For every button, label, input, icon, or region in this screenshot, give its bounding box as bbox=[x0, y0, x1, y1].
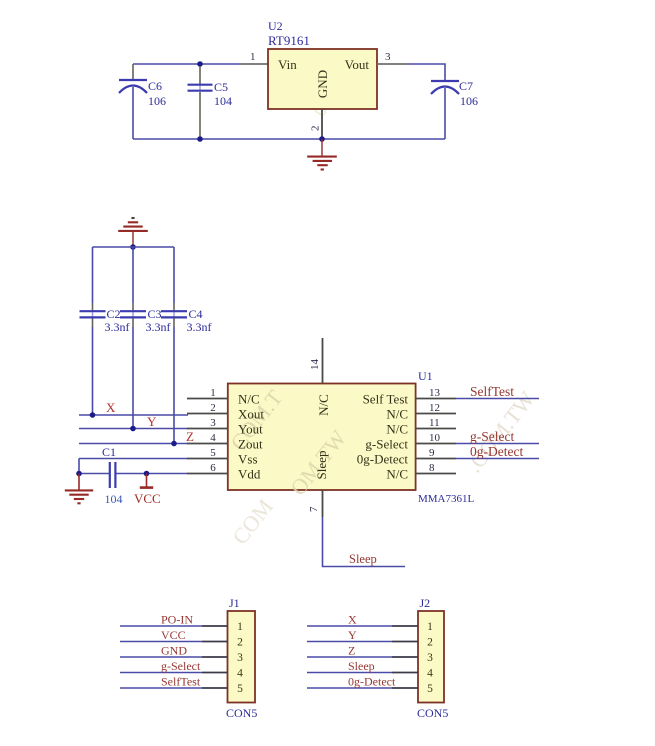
node junction gnd bus bbox=[130, 244, 136, 250]
svg-text:2: 2 bbox=[310, 126, 322, 132]
wire bottom rail bbox=[133, 138, 445, 140]
node junction gnd C1 bbox=[76, 471, 82, 477]
wire 0g-Detect (J2) bbox=[307, 687, 392, 689]
svg-text:Sleep: Sleep bbox=[349, 552, 377, 566]
svg-text:0g-Detect: 0g-Detect bbox=[348, 675, 396, 689]
svg-text:X: X bbox=[106, 400, 116, 415]
svg-text:106: 106 bbox=[148, 94, 166, 108]
svg-text:Vout: Vout bbox=[345, 57, 370, 72]
svg-text:3: 3 bbox=[427, 652, 433, 664]
wire node Z bbox=[79, 443, 188, 445]
ground symbol C1 bbox=[65, 474, 93, 504]
pin 6 stub bbox=[187, 473, 228, 475]
node junction VCC bbox=[144, 471, 150, 477]
wire node X bbox=[79, 414, 188, 416]
capacitor C6 bbox=[119, 80, 147, 93]
wire node Y bbox=[79, 428, 188, 430]
svg-text:C6: C6 bbox=[148, 79, 162, 93]
svg-text:CON5: CON5 bbox=[417, 706, 448, 720]
svg-text:C1: C1 bbox=[102, 445, 116, 459]
svg-text:1: 1 bbox=[210, 387, 216, 399]
svg-text:J2: J2 bbox=[420, 596, 431, 610]
svg-text:8: 8 bbox=[429, 462, 435, 474]
watermark over U1 mid bbox=[285, 425, 351, 500]
pin 3 of U2 bbox=[377, 63, 407, 65]
svg-text:g-Select: g-Select bbox=[365, 437, 408, 452]
svg-text:Z: Z bbox=[186, 429, 194, 444]
svg-text:J1: J1 bbox=[229, 596, 240, 610]
svg-text:g-Select: g-Select bbox=[470, 429, 514, 444]
wire X (J2) bbox=[307, 625, 392, 627]
watermark over U1 left bbox=[225, 385, 288, 455]
svg-text:3.3nf: 3.3nf bbox=[105, 320, 130, 334]
svg-text:9: 9 bbox=[429, 447, 435, 459]
svg-text:7: 7 bbox=[308, 506, 320, 512]
svg-text:11: 11 bbox=[429, 417, 440, 429]
power symbol VCC bbox=[140, 474, 153, 488]
svg-text:Vin: Vin bbox=[278, 57, 297, 72]
wire Sleep bbox=[323, 517, 406, 567]
watermark below U1 left bbox=[227, 494, 278, 549]
svg-text:Zout: Zout bbox=[238, 437, 263, 452]
svg-text:6: 6 bbox=[210, 462, 216, 474]
pin 13 stub bbox=[416, 398, 456, 400]
capacitor C7 bbox=[431, 81, 459, 94]
connector J1 box bbox=[228, 611, 256, 703]
svg-text:U2: U2 bbox=[268, 19, 283, 33]
svg-text:5: 5 bbox=[427, 683, 433, 695]
svg-text:GND: GND bbox=[161, 644, 187, 658]
svg-text:104: 104 bbox=[105, 492, 123, 506]
svg-text:3: 3 bbox=[210, 417, 216, 429]
J1 pin numbers bbox=[237, 621, 243, 695]
svg-text:3.3nf: 3.3nf bbox=[146, 320, 171, 334]
op-amp U2 box bbox=[268, 49, 377, 109]
pin 12 stub bbox=[416, 413, 456, 415]
node junction bottom (C5) bbox=[197, 136, 203, 142]
capacitor C1 bbox=[110, 462, 116, 488]
wire C3 vertical bbox=[132, 247, 134, 303]
U1 left pin names bbox=[238, 392, 264, 482]
svg-text:C3: C3 bbox=[148, 307, 162, 321]
wire 0g-Detect bbox=[456, 458, 539, 460]
svg-text:N/C: N/C bbox=[386, 467, 408, 482]
wire C2 vertical bbox=[92, 247, 94, 303]
svg-text:N/C: N/C bbox=[386, 407, 408, 422]
pin 14 stub bbox=[322, 338, 324, 384]
pin 9 stub bbox=[416, 458, 456, 460]
svg-text:4: 4 bbox=[237, 668, 243, 680]
svg-text:2: 2 bbox=[237, 637, 243, 649]
svg-text:g-Select: g-Select bbox=[161, 659, 201, 673]
svg-text:C4: C4 bbox=[189, 307, 203, 321]
svg-text:Vdd: Vdd bbox=[238, 467, 261, 482]
svg-text:VCC: VCC bbox=[161, 628, 186, 642]
svg-text:RT9161: RT9161 bbox=[268, 33, 310, 48]
pin 2 of U2 bbox=[321, 109, 323, 139]
pin 11 stub bbox=[416, 428, 456, 430]
svg-text:4: 4 bbox=[427, 668, 433, 680]
wire SelfTest (J1) bbox=[120, 687, 202, 689]
wire output top bbox=[407, 64, 445, 80]
svg-text:SelfTest: SelfTest bbox=[161, 675, 201, 689]
svg-text:3: 3 bbox=[237, 652, 243, 664]
svg-text:14: 14 bbox=[309, 359, 321, 371]
capacitor C3 bbox=[132, 312, 134, 317]
wire Z (J2) bbox=[307, 656, 392, 658]
svg-text:PO-IN: PO-IN bbox=[161, 613, 193, 627]
capacitor C5 bbox=[199, 85, 201, 90]
svg-text:Sleep: Sleep bbox=[314, 451, 329, 480]
wire GND (J1) bbox=[120, 656, 202, 658]
svg-text:COM: COM bbox=[227, 494, 278, 549]
svg-text:2: 2 bbox=[427, 637, 433, 649]
wire C4 vertical bbox=[173, 247, 175, 303]
svg-text:104: 104 bbox=[214, 94, 232, 108]
watermark right of U1 bbox=[461, 386, 540, 477]
ground symbol top (inverted) bbox=[118, 218, 148, 247]
wire input top bbox=[133, 63, 240, 65]
node junction top (C5) bbox=[197, 61, 203, 67]
wire Vss bbox=[79, 458, 188, 460]
svg-text:C7: C7 bbox=[459, 79, 473, 93]
svg-text:U1: U1 bbox=[418, 369, 433, 383]
wire PO-IN bbox=[120, 625, 202, 627]
pin 1 of U2 bbox=[240, 63, 268, 65]
ground symbol under U2 bbox=[307, 139, 337, 170]
svg-text:13: 13 bbox=[429, 387, 441, 399]
wire Y (J2) bbox=[307, 641, 392, 643]
wire Sleep (J2) bbox=[307, 672, 392, 674]
svg-text:3.3nf: 3.3nf bbox=[187, 320, 212, 334]
U1 right pin names bbox=[357, 392, 409, 482]
svg-text:5: 5 bbox=[237, 683, 243, 695]
svg-text:Self Test: Self Test bbox=[363, 392, 409, 407]
svg-text:5: 5 bbox=[210, 447, 216, 459]
svg-text:Yout: Yout bbox=[238, 422, 263, 437]
capacitor C4 bbox=[173, 312, 175, 317]
svg-text:N/C: N/C bbox=[316, 394, 331, 416]
svg-text:Z: Z bbox=[348, 644, 355, 658]
J2 pin numbers bbox=[427, 621, 433, 695]
pin 3 stub bbox=[187, 428, 228, 430]
svg-text:C2: C2 bbox=[107, 307, 121, 321]
svg-text:Vss: Vss bbox=[238, 452, 258, 467]
wire SelfTest bbox=[456, 398, 539, 400]
watermark over U2 bbox=[309, 64, 360, 121]
wire Vdd bbox=[79, 473, 109, 475]
pin 4 stub bbox=[187, 443, 228, 445]
svg-text:CON5: CON5 bbox=[226, 706, 257, 720]
svg-text:MMA7361L: MMA7361L bbox=[418, 493, 475, 505]
wire left vertical (C6 branch) bbox=[132, 64, 134, 80]
svg-text:2: 2 bbox=[210, 402, 216, 414]
svg-text:1: 1 bbox=[237, 621, 243, 633]
connector J2 box bbox=[418, 611, 444, 703]
svg-text:4: 4 bbox=[210, 432, 216, 444]
pin 10 stub bbox=[416, 443, 456, 445]
svg-text:C5: C5 bbox=[214, 80, 228, 94]
pin 2 stub bbox=[187, 413, 228, 415]
svg-text:VCC: VCC bbox=[134, 491, 161, 506]
svg-text:SelfTest: SelfTest bbox=[470, 384, 514, 399]
svg-text:X: X bbox=[348, 613, 357, 627]
wire g-Select (J1) bbox=[120, 672, 202, 674]
svg-text:12: 12 bbox=[429, 402, 440, 414]
wire VCC (J1) bbox=[120, 641, 202, 643]
svg-text:1: 1 bbox=[427, 621, 433, 633]
wire g-Select bbox=[456, 443, 539, 445]
capacitor C2 bbox=[92, 312, 94, 317]
svg-text:3: 3 bbox=[385, 51, 391, 63]
wire gnd bus horizontal bbox=[93, 246, 175, 248]
svg-text:GND: GND bbox=[315, 70, 330, 98]
svg-text:N/C: N/C bbox=[238, 392, 260, 407]
pin 8 stub bbox=[416, 473, 456, 475]
IC U1 box bbox=[228, 384, 416, 491]
svg-text:1: 1 bbox=[250, 51, 256, 63]
svg-text:N/C: N/C bbox=[386, 422, 408, 437]
svg-text:106: 106 bbox=[460, 94, 478, 108]
svg-text:10: 10 bbox=[429, 432, 441, 444]
svg-text:0g-Detect: 0g-Detect bbox=[357, 452, 409, 467]
svg-text:Y: Y bbox=[348, 628, 357, 642]
node junction ground bbox=[319, 136, 325, 142]
svg-text:Sleep: Sleep bbox=[348, 659, 375, 673]
pin 1 stub N/C bbox=[187, 398, 228, 400]
pin 7 stub bbox=[322, 490, 324, 517]
svg-text:Xout: Xout bbox=[238, 407, 264, 422]
svg-text:Y: Y bbox=[147, 414, 157, 429]
svg-text:0g-Detect: 0g-Detect bbox=[470, 444, 523, 459]
pin 5 stub bbox=[187, 458, 228, 460]
